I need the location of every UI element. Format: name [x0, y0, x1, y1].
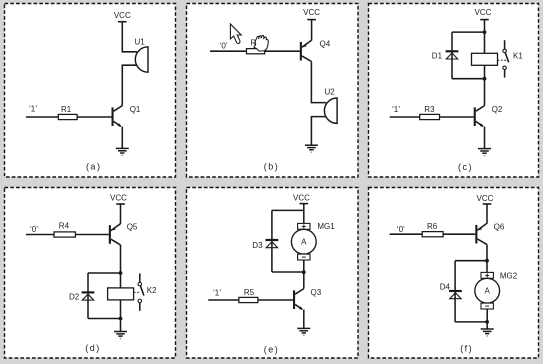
wire relay to Q2 collector [484, 65, 486, 105]
wire D2 branch bottom [88, 318, 121, 320]
svg-text:R5: R5 [244, 288, 255, 297]
resistor R5 [239, 297, 258, 302]
svg-text:Q4: Q4 [320, 39, 331, 48]
svg-text:(d): (d) [85, 343, 101, 353]
svg-text:VCC: VCC [114, 11, 131, 20]
wire D4 branch bottom [455, 321, 487, 323]
panel (b) dashed frame [187, 4, 359, 178]
relay coil K2 [108, 288, 134, 300]
svg-text:R4: R4 [59, 222, 70, 231]
wire VCC to U1 top lead [122, 22, 137, 52]
svg-text:A: A [485, 287, 491, 296]
svg-text:Q6: Q6 [494, 223, 505, 232]
resistor R6 [422, 232, 443, 237]
svg-text:K2: K2 [147, 286, 157, 295]
wire MG2 to ground [486, 309, 488, 329]
wire input to R5 [208, 299, 239, 301]
panel (e) dashed frame [187, 188, 359, 359]
wire VCC to relay coil K1 [484, 20, 486, 54]
svg-text:‘1’: ‘1’ [213, 288, 221, 297]
svg-text:VCC: VCC [293, 193, 310, 202]
resistor R3 [420, 114, 440, 119]
svg-text:R6: R6 [427, 222, 438, 231]
diode D3 [266, 239, 279, 241]
svg-text:‘1’: ‘1’ [29, 105, 37, 114]
svg-text:VCC: VCC [477, 194, 494, 203]
wire VCC to Q5 emitter [120, 204, 122, 224]
svg-text:A: A [301, 238, 307, 247]
svg-text:(a): (a) [86, 162, 102, 172]
panel (f) dashed frame [369, 188, 539, 359]
wire VCC to Q4 emitter [311, 20, 313, 41]
wire Q4 collector to U2 top lead [311, 62, 326, 103]
ground (f) [481, 328, 494, 330]
ground (d) [114, 331, 127, 333]
svg-text:Q3: Q3 [311, 288, 322, 297]
svg-text:VCC: VCC [303, 8, 320, 17]
wire junction to D2 branch [88, 272, 121, 274]
ground (c) [478, 148, 491, 150]
wire R5 to Q3 base [258, 299, 293, 301]
svg-text:‘0’: ‘0’ [30, 225, 38, 234]
mouse arrow cursor [230, 24, 241, 43]
node top junction (d) [119, 271, 123, 275]
diode D2 [82, 291, 95, 293]
dashed link coil to contact K1 [498, 59, 507, 61]
wire Q1 emitter to ground [121, 127, 123, 149]
wire Q5 collector down [120, 245, 122, 288]
wire D1 branch bottom [452, 78, 485, 80]
sounder U1 [135, 47, 148, 72]
svg-text:MG2: MG2 [500, 271, 518, 280]
motor MG1 [298, 223, 310, 229]
wire D3 branch bottom [272, 271, 304, 273]
svg-text:MG1: MG1 [317, 222, 335, 231]
node top junction (f) [485, 259, 489, 263]
diode D1 [446, 50, 459, 52]
diode D4 [449, 290, 462, 292]
wire input to Q4 base [210, 50, 300, 52]
svg-text:Q5: Q5 [127, 222, 138, 231]
wire VCC to MG1 [303, 204, 305, 224]
svg-text:R1: R1 [61, 105, 72, 114]
wire D1 branch vertical [451, 32, 453, 79]
node top junction (c) [483, 30, 487, 34]
svg-text:‘0’: ‘0’ [220, 41, 228, 50]
svg-text:VCC: VCC [475, 8, 492, 17]
transistor Q5 (PNP) [109, 225, 111, 244]
node junction (e) [302, 270, 306, 274]
wire input to R4 [26, 234, 54, 236]
ground (e) [297, 327, 310, 329]
relay contact K1 [504, 40, 506, 49]
node bottom junction (c) [483, 77, 487, 81]
svg-text:U2: U2 [325, 88, 336, 97]
node bottom junction (d) [119, 317, 123, 321]
svg-text:VCC: VCC [110, 194, 127, 203]
transistor Q1 (NPN) [112, 107, 114, 126]
node bottom junction (f) [485, 320, 489, 324]
svg-text:‘0’: ‘0’ [397, 225, 405, 234]
relay coil K1 [472, 53, 498, 65]
svg-text:D1: D1 [432, 52, 443, 61]
wire R1 to Q1 base [77, 116, 111, 118]
wire top tee to D3 branch [272, 209, 304, 211]
relay contact K2 [139, 273, 141, 282]
svg-text:‘1’: ‘1’ [392, 105, 400, 114]
wire Q6 collector down to MG2 [486, 245, 488, 273]
wire D4 branch vertical [454, 261, 456, 322]
panel (d) dashed frame [5, 188, 176, 359]
transistor Q6 (PNP) [475, 225, 477, 244]
svg-text:K1: K1 [513, 52, 523, 61]
wire input to R1 [26, 116, 58, 118]
wire R4 to Q5 base [75, 234, 108, 236]
wire U1 bottom lead to Q1 collector [122, 65, 137, 105]
wire input to R6 [390, 233, 423, 235]
svg-text:U1: U1 [135, 37, 146, 46]
panel (c) dashed frame [369, 4, 539, 178]
wire D3 branch vertical [271, 210, 273, 272]
wire junction to D1 branch [452, 31, 485, 33]
ground (b) [305, 144, 318, 146]
transistor Q2 (NPN) [474, 107, 476, 126]
svg-text:D2: D2 [69, 293, 80, 302]
wire Q3 emitter to ground [303, 310, 305, 329]
svg-text:(f): (f) [460, 344, 473, 354]
svg-text:R3: R3 [424, 105, 435, 114]
panel (a) dashed frame [5, 4, 176, 178]
wire VCC to Q6 emitter [486, 204, 488, 224]
wire R6 to Q6 base [443, 233, 475, 235]
svg-text:Q1: Q1 [130, 105, 141, 114]
svg-text:(b): (b) [264, 161, 280, 171]
hand cursor [254, 35, 268, 51]
sounder U2 [324, 98, 337, 123]
svg-text:D3: D3 [252, 241, 263, 250]
wire Q2 emitter to ground [484, 127, 486, 149]
wire junction to D4 branch [455, 260, 487, 262]
svg-text:(c): (c) [458, 162, 473, 172]
transistor Q4 (PNP) [300, 42, 302, 61]
wire input to R3 [390, 116, 420, 118]
wire D2 branch vertical [87, 273, 89, 319]
ground (a) [116, 147, 129, 149]
wire U2 bottom lead to ground [311, 117, 326, 146]
resistor R1 [58, 114, 77, 119]
dashed link coil to contact K2 [134, 291, 139, 293]
svg-text:D4: D4 [440, 282, 451, 291]
wire relay coil to ground node [120, 300, 122, 331]
wire R3 to Q2 base [440, 116, 474, 118]
wire MG1 to Q3 collector [303, 260, 305, 289]
svg-text:Q2: Q2 [492, 105, 503, 114]
svg-text:(e): (e) [264, 344, 280, 354]
resistor R4 [54, 232, 75, 237]
motor MG2 [481, 272, 493, 278]
transistor Q3 (NPN) [293, 290, 295, 309]
resistor R2 [247, 49, 265, 54]
